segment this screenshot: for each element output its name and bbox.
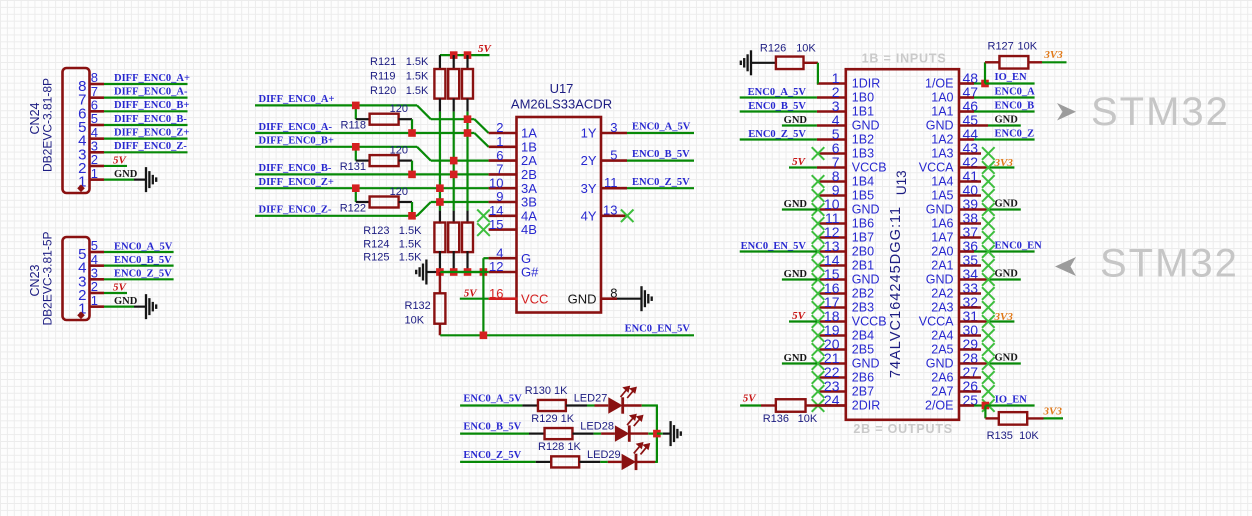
svg-text:120: 120 — [390, 186, 408, 198]
svg-text:2A3: 2A3 — [931, 301, 953, 315]
svg-text:3Y: 3Y — [581, 181, 597, 196]
svg-text:120: 120 — [390, 144, 408, 156]
svg-text:2A2: 2A2 — [931, 287, 953, 301]
svg-text:DIFF_ENC0_A-: DIFF_ENC0_A- — [259, 122, 333, 133]
svg-text:DIFF_ENC0_Z-: DIFF_ENC0_Z- — [114, 141, 187, 152]
svg-text:14: 14 — [489, 203, 503, 218]
svg-text:R128 1K: R128 1K — [538, 441, 581, 453]
svg-text:VCCA: VCCA — [919, 315, 954, 329]
svg-text:DIFF_ENC0_Z-: DIFF_ENC0_Z- — [259, 205, 332, 216]
svg-text:1A0: 1A0 — [931, 91, 953, 105]
svg-text:R118: R118 — [341, 120, 366, 132]
svg-text:R135: R135 — [987, 430, 1013, 442]
svg-text:ENC0_EN_5V: ENC0_EN_5V — [741, 241, 807, 252]
svg-text:G: G — [521, 251, 531, 266]
svg-text:GND: GND — [784, 353, 808, 364]
svg-text:120: 120 — [390, 103, 408, 115]
svg-text:13: 13 — [603, 203, 617, 218]
svg-text:GND: GND — [114, 296, 138, 307]
svg-text:ENC0_B_5V: ENC0_B_5V — [632, 149, 690, 160]
svg-text:VCC: VCC — [521, 291, 548, 306]
svg-text:R130 1K: R130 1K — [525, 385, 568, 397]
svg-text:GND: GND — [852, 357, 880, 371]
svg-text:ENC0_B_5V: ENC0_B_5V — [748, 101, 806, 112]
svg-text:10K: 10K — [796, 43, 816, 55]
svg-text:ENC0_Z_5V: ENC0_Z_5V — [748, 129, 806, 140]
svg-text:ENC0_EN_5V: ENC0_EN_5V — [625, 324, 691, 335]
svg-text:G#: G# — [521, 265, 539, 280]
svg-text:4: 4 — [496, 245, 503, 260]
svg-text:1B0: 1B0 — [852, 91, 874, 105]
svg-text:GND: GND — [926, 357, 954, 371]
svg-text:R132: R132 — [405, 300, 431, 312]
svg-text:1A6: 1A6 — [931, 217, 953, 231]
svg-text:GND: GND — [784, 269, 808, 280]
svg-text:2A0: 2A0 — [931, 245, 953, 259]
svg-text:16: 16 — [489, 286, 503, 301]
svg-text:ENC0_B_5V: ENC0_B_5V — [463, 422, 521, 433]
svg-text:GND: GND — [852, 273, 880, 287]
svg-text:1.5K: 1.5K — [406, 85, 429, 97]
svg-text:GND: GND — [568, 291, 597, 306]
svg-text:DIFF_ENC0_A-: DIFF_ENC0_A- — [114, 86, 188, 97]
svg-text:U13: U13 — [894, 170, 909, 195]
svg-text:1B5: 1B5 — [852, 189, 874, 203]
svg-text:VCCB: VCCB — [852, 315, 887, 329]
svg-text:11: 11 — [604, 175, 618, 190]
svg-text:3V3: 3V3 — [994, 311, 1014, 323]
svg-text:DIFF_ENC0_A+: DIFF_ENC0_A+ — [259, 94, 335, 105]
svg-text:1.5K: 1.5K — [406, 56, 429, 68]
svg-text:4A: 4A — [521, 208, 537, 223]
svg-text:4B: 4B — [521, 222, 537, 237]
svg-text:R125: R125 — [363, 252, 389, 264]
svg-text:DIFF_ENC0_Z+: DIFF_ENC0_Z+ — [259, 177, 334, 188]
svg-text:DIFF_ENC0_B-: DIFF_ENC0_B- — [259, 163, 332, 174]
svg-text:R124: R124 — [363, 239, 389, 251]
svg-text:DIFF_ENC0_A+: DIFF_ENC0_A+ — [114, 73, 190, 84]
svg-text:AM26LS33ACDR: AM26LS33ACDR — [511, 97, 612, 112]
svg-text:R136: R136 — [763, 413, 789, 425]
svg-text:R119: R119 — [370, 70, 395, 82]
svg-text:IO_EN: IO_EN — [995, 395, 1028, 406]
svg-text:ENC0_A: ENC0_A — [995, 87, 1036, 98]
svg-text:1B = INPUTS: 1B = INPUTS — [862, 52, 947, 66]
svg-text:5V: 5V — [113, 281, 128, 293]
svg-text:R129 1K: R129 1K — [531, 413, 574, 425]
svg-text:LED27: LED27 — [574, 393, 608, 405]
svg-text:LED28: LED28 — [580, 421, 614, 433]
svg-text:GND: GND — [926, 119, 954, 133]
svg-text:1A1: 1A1 — [931, 105, 953, 119]
svg-text:2: 2 — [496, 120, 503, 135]
svg-text:GND: GND — [784, 115, 808, 126]
svg-text:3A: 3A — [521, 181, 537, 196]
svg-text:2B4: 2B4 — [852, 329, 874, 343]
svg-text:5V: 5V — [478, 43, 493, 55]
svg-text:12: 12 — [489, 259, 503, 274]
svg-text:2B6: 2B6 — [852, 371, 874, 385]
svg-text:R126: R126 — [760, 43, 786, 55]
svg-text:VCCB: VCCB — [852, 161, 887, 175]
svg-text:2B5: 2B5 — [852, 343, 874, 357]
svg-text:R131: R131 — [340, 161, 366, 173]
svg-text:7: 7 — [496, 162, 503, 177]
svg-text:74ALVC164245DGG:11: 74ALVC164245DGG:11 — [888, 206, 904, 378]
svg-text:1A3: 1A3 — [931, 147, 953, 161]
svg-text:STM32: STM32 — [1091, 90, 1230, 134]
svg-text:1B3: 1B3 — [852, 147, 874, 161]
svg-text:3: 3 — [610, 120, 617, 135]
svg-text:DIFF_ENC0_B+: DIFF_ENC0_B+ — [114, 100, 189, 111]
svg-text:2B2: 2B2 — [852, 287, 874, 301]
svg-text:R122: R122 — [340, 203, 366, 215]
svg-text:2B7: 2B7 — [852, 385, 874, 399]
svg-text:9: 9 — [496, 189, 503, 204]
svg-text:10K: 10K — [1019, 430, 1039, 442]
svg-text:ENC0_Z_5V: ENC0_Z_5V — [463, 450, 521, 461]
svg-text:DIFF_ENC0_B-: DIFF_ENC0_B- — [114, 114, 187, 125]
svg-text:2B3: 2B3 — [852, 301, 874, 315]
svg-text:1B2: 1B2 — [852, 133, 874, 147]
svg-text:GND: GND — [995, 199, 1019, 210]
svg-text:3V3: 3V3 — [994, 157, 1014, 169]
svg-text:1A4: 1A4 — [931, 175, 953, 189]
svg-text:1Y: 1Y — [581, 126, 597, 141]
svg-text:ENC0_A_5V: ENC0_A_5V — [748, 87, 807, 98]
svg-text:R120: R120 — [370, 85, 396, 97]
svg-text:1.5K: 1.5K — [399, 252, 422, 264]
svg-text:LED29: LED29 — [587, 449, 621, 461]
svg-text:2A7: 2A7 — [931, 385, 953, 399]
svg-text:1A2: 1A2 — [931, 133, 953, 147]
svg-text:GND: GND — [114, 169, 138, 180]
svg-text:GND: GND — [784, 199, 808, 210]
svg-text:R121: R121 — [370, 56, 396, 68]
svg-text:1B7: 1B7 — [852, 231, 874, 245]
svg-text:GND: GND — [995, 353, 1019, 364]
svg-text:10K: 10K — [798, 413, 818, 425]
svg-text:1: 1 — [91, 166, 98, 181]
svg-text:5V: 5V — [464, 287, 479, 299]
svg-text:1: 1 — [91, 293, 98, 308]
svg-text:5: 5 — [610, 147, 617, 162]
svg-text:1A: 1A — [521, 126, 537, 141]
svg-text:ENC0_A_5V: ENC0_A_5V — [632, 122, 691, 133]
svg-text:ENC0_B_5V: ENC0_B_5V — [114, 255, 172, 266]
svg-text:U17: U17 — [550, 81, 574, 96]
svg-text:DIFF_ENC0_Z+: DIFF_ENC0_Z+ — [114, 127, 189, 138]
svg-text:2A5: 2A5 — [931, 343, 953, 357]
svg-text:ENC0_Z: ENC0_Z — [995, 129, 1035, 140]
svg-text:6: 6 — [496, 148, 503, 163]
svg-text:1/OE: 1/OE — [925, 77, 954, 91]
svg-text:R123: R123 — [363, 225, 389, 237]
svg-text:STM32: STM32 — [1100, 242, 1239, 286]
svg-text:2B: 2B — [521, 167, 537, 182]
svg-text:5V: 5V — [792, 156, 807, 168]
svg-text:2A6: 2A6 — [931, 371, 953, 385]
svg-text:GND: GND — [995, 115, 1019, 126]
svg-text:3V3: 3V3 — [1043, 49, 1063, 61]
svg-text:1B4: 1B4 — [852, 175, 874, 189]
svg-text:ENC0_Z_5V: ENC0_Z_5V — [632, 177, 690, 188]
svg-text:1.5K: 1.5K — [399, 239, 422, 251]
svg-text:2Y: 2Y — [581, 153, 597, 168]
svg-text:ENC0_B: ENC0_B — [995, 101, 1035, 112]
svg-text:4Y: 4Y — [581, 208, 597, 223]
svg-text:GND: GND — [926, 273, 954, 287]
svg-text:ENC0_EN: ENC0_EN — [995, 241, 1043, 252]
svg-text:1: 1 — [496, 134, 503, 149]
svg-text:10K: 10K — [405, 315, 425, 327]
svg-text:2A1: 2A1 — [931, 259, 953, 273]
svg-text:GND: GND — [852, 119, 880, 133]
svg-text:2A: 2A — [521, 153, 537, 168]
svg-text:ENC0_A_5V: ENC0_A_5V — [463, 394, 522, 405]
svg-text:1.5K: 1.5K — [399, 225, 422, 237]
svg-text:5V: 5V — [743, 393, 758, 405]
svg-text:2A4: 2A4 — [931, 329, 953, 343]
svg-text:15: 15 — [489, 217, 503, 232]
svg-text:GND: GND — [852, 203, 880, 217]
svg-text:IO_EN: IO_EN — [995, 72, 1028, 83]
svg-text:8: 8 — [610, 286, 617, 301]
svg-text:1A7: 1A7 — [931, 231, 953, 245]
svg-text:GND: GND — [926, 203, 954, 217]
svg-text:1.5K: 1.5K — [406, 70, 429, 82]
svg-text:1B: 1B — [521, 139, 537, 154]
svg-text:1B6: 1B6 — [852, 217, 874, 231]
svg-text:2DIR: 2DIR — [852, 399, 880, 413]
svg-text:2B = OUTPUTS: 2B = OUTPUTS — [853, 422, 953, 436]
svg-text:1B1: 1B1 — [852, 105, 874, 119]
svg-text:2B0: 2B0 — [852, 245, 874, 259]
svg-text:3B: 3B — [521, 195, 537, 210]
svg-text:DB2EVC-3.81-5P: DB2EVC-3.81-5P — [41, 231, 55, 325]
svg-text:5V: 5V — [792, 310, 807, 322]
svg-text:DB2EVC-3.81-8P: DB2EVC-3.81-8P — [41, 78, 55, 172]
svg-text:10K: 10K — [1018, 40, 1038, 52]
svg-text:GND: GND — [995, 269, 1019, 280]
svg-text:3V3: 3V3 — [1043, 406, 1063, 418]
svg-text:10: 10 — [489, 175, 503, 190]
svg-text:2B1: 2B1 — [852, 259, 874, 273]
svg-text:R127: R127 — [988, 40, 1014, 52]
svg-text:DIFF_ENC0_B+: DIFF_ENC0_B+ — [259, 136, 334, 147]
svg-text:ENC0_A_5V: ENC0_A_5V — [114, 241, 173, 252]
svg-text:2/OE: 2/OE — [925, 399, 954, 413]
svg-text:5V: 5V — [113, 154, 128, 166]
svg-text:1DIR: 1DIR — [852, 77, 880, 91]
svg-text:1A5: 1A5 — [931, 189, 953, 203]
svg-text:VCCA: VCCA — [919, 161, 954, 175]
svg-text:ENC0_Z_5V: ENC0_Z_5V — [114, 269, 172, 280]
